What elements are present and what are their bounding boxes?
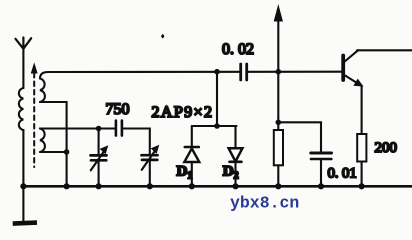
wire collector to top right xyxy=(357,49,412,51)
svg-text:D1: D1 xyxy=(177,164,193,182)
wire down to D2 xyxy=(234,126,236,148)
supply rail with arrow up xyxy=(274,6,282,122)
junction on top wire at diode tap xyxy=(214,69,220,75)
wire antenna mast down to primary coil xyxy=(22,49,24,88)
transformer secondary upper winding L2 xyxy=(40,79,45,103)
wire secondary lower top to node A xyxy=(40,127,99,129)
wire diode header xyxy=(192,125,237,127)
junction supply and top wire xyxy=(276,69,282,75)
ink speck xyxy=(161,34,165,39)
wire secondary upper top to main top wire xyxy=(40,72,342,79)
svg-text:ybx8.cn: ybx8.cn xyxy=(230,194,299,213)
transformer secondary lower winding L3 xyxy=(40,129,45,153)
wire secondary lower bottom to vertical xyxy=(40,151,67,153)
resistor 200 xyxy=(357,134,366,186)
wire RC branch over to 0.01 cap xyxy=(278,122,321,151)
capacitor 750 xyxy=(116,121,122,136)
svg-text:200: 200 xyxy=(375,140,398,156)
diode D1 xyxy=(184,147,199,186)
svg-text:2AP9×2: 2AP9×2 xyxy=(152,104,214,121)
capacitor 0.01 xyxy=(311,153,332,186)
capacitor 0.02 (series in top wire) xyxy=(241,64,247,80)
ground bus xyxy=(22,185,412,188)
variable capacitor C2 xyxy=(142,145,160,187)
transformer primary winding L1 xyxy=(19,88,24,130)
wire 750 capacitor to variable capacitor C2 branch xyxy=(123,129,150,155)
variable capacitor C1 xyxy=(91,129,109,187)
wire emitter down to resistor 200 xyxy=(361,86,363,135)
transformer core (dashed) with adjust arrow xyxy=(31,64,37,167)
junction supply and RC branch xyxy=(276,120,282,126)
wire top wire to diode pair tap xyxy=(216,72,218,126)
junction diode tap split xyxy=(214,123,220,129)
resistor R1 xyxy=(274,122,283,186)
wire secondary upper bottom, over and down xyxy=(40,102,67,186)
diode D2 xyxy=(229,148,243,186)
wire primary bottom to ground bus xyxy=(22,130,24,186)
svg-text:0. 01: 0. 01 xyxy=(328,166,357,182)
junction secondary bottoms xyxy=(64,149,70,155)
svg-text:0. 02: 0. 02 xyxy=(222,41,254,58)
svg-text:750: 750 xyxy=(106,101,130,118)
transistor Q1 xyxy=(343,50,362,86)
ground xyxy=(13,186,37,223)
junction bus dots xyxy=(20,183,364,189)
antenna xyxy=(16,38,32,49)
wire down to D1 xyxy=(191,126,193,147)
wire node A to 750 capacitor xyxy=(99,127,115,129)
node A junction dot xyxy=(96,126,102,132)
